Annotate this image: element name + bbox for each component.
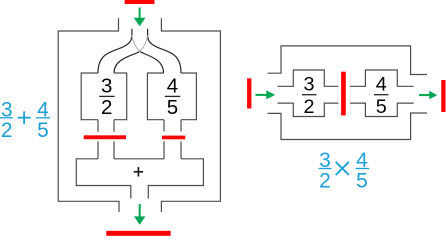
fraction bars (cyan left label) xyxy=(0,117,50,119)
wires below boxes to red bars xyxy=(98,120,181,132)
svg-text:2: 2 xyxy=(1,119,13,142)
wires from red bars into plus box xyxy=(98,141,181,159)
plus sign xyxy=(134,167,143,176)
multiplication sign xyxy=(336,162,349,175)
label 4/5 xyxy=(376,74,387,118)
machine box 3/2 xyxy=(81,73,127,120)
svg-text:2: 2 xyxy=(303,96,314,118)
label 4/5 (right box) xyxy=(167,75,178,120)
machine box 3/2 (right diagram) with side notches xyxy=(278,70,339,117)
output bar (bottom red) xyxy=(106,231,170,236)
fraction bar 4/5 xyxy=(165,95,180,97)
output bar (red, right) xyxy=(441,80,445,112)
svg-text:3: 3 xyxy=(303,74,314,96)
wire crossing: under segments (light gray) xyxy=(132,36,148,52)
svg-text:5: 5 xyxy=(37,119,49,142)
svg-text:4: 4 xyxy=(376,74,387,96)
plus box (adder) xyxy=(76,159,203,199)
red bar under 3/2 xyxy=(84,135,126,139)
fraction bar 3/2 xyxy=(302,94,317,96)
input arrow (green, right) xyxy=(256,94,268,96)
input bar (top red) xyxy=(125,0,155,4)
output arrow (green, down) xyxy=(139,204,141,218)
fraction bar 4/5 xyxy=(374,94,389,96)
svg-text:3: 3 xyxy=(101,75,112,98)
svg-text:5: 5 xyxy=(376,96,387,118)
fraction bars (cyan right label) xyxy=(319,168,370,170)
middle red bar (between machines) xyxy=(341,72,346,116)
output arrow (green, right) xyxy=(419,94,431,96)
outer box (left circuit) with top chimney and bottom exit lips xyxy=(58,18,220,212)
cyan expression 3/2 + 4/5 xyxy=(1,99,49,142)
input bar (red, left) xyxy=(247,78,251,108)
wire split: outer swoop to left box xyxy=(98,29,132,73)
label 3/2 xyxy=(303,74,314,118)
wire crossing: over segments to box notches xyxy=(114,52,164,73)
svg-text:5: 5 xyxy=(356,169,368,192)
svg-text:5: 5 xyxy=(167,96,178,119)
plus sign (cyan) xyxy=(18,111,31,124)
svg-text:2: 2 xyxy=(319,169,331,192)
red bar under 4/5 xyxy=(162,136,185,140)
outer box (right circuit) with side lips xyxy=(268,46,428,140)
cyan expression 3/2 x 4/5 xyxy=(319,149,368,192)
label 3/2 (left box) xyxy=(101,75,112,120)
fraction bar 3/2 xyxy=(99,95,114,97)
input arrow (green, down) xyxy=(139,8,141,19)
svg-text:4: 4 xyxy=(167,75,178,98)
svg-text:2: 2 xyxy=(101,96,112,119)
wire split: outer swoop to right box xyxy=(148,29,181,73)
machine box 4/5 xyxy=(147,73,196,120)
machine box 4/5 (right diagram) with side notches xyxy=(350,70,414,117)
